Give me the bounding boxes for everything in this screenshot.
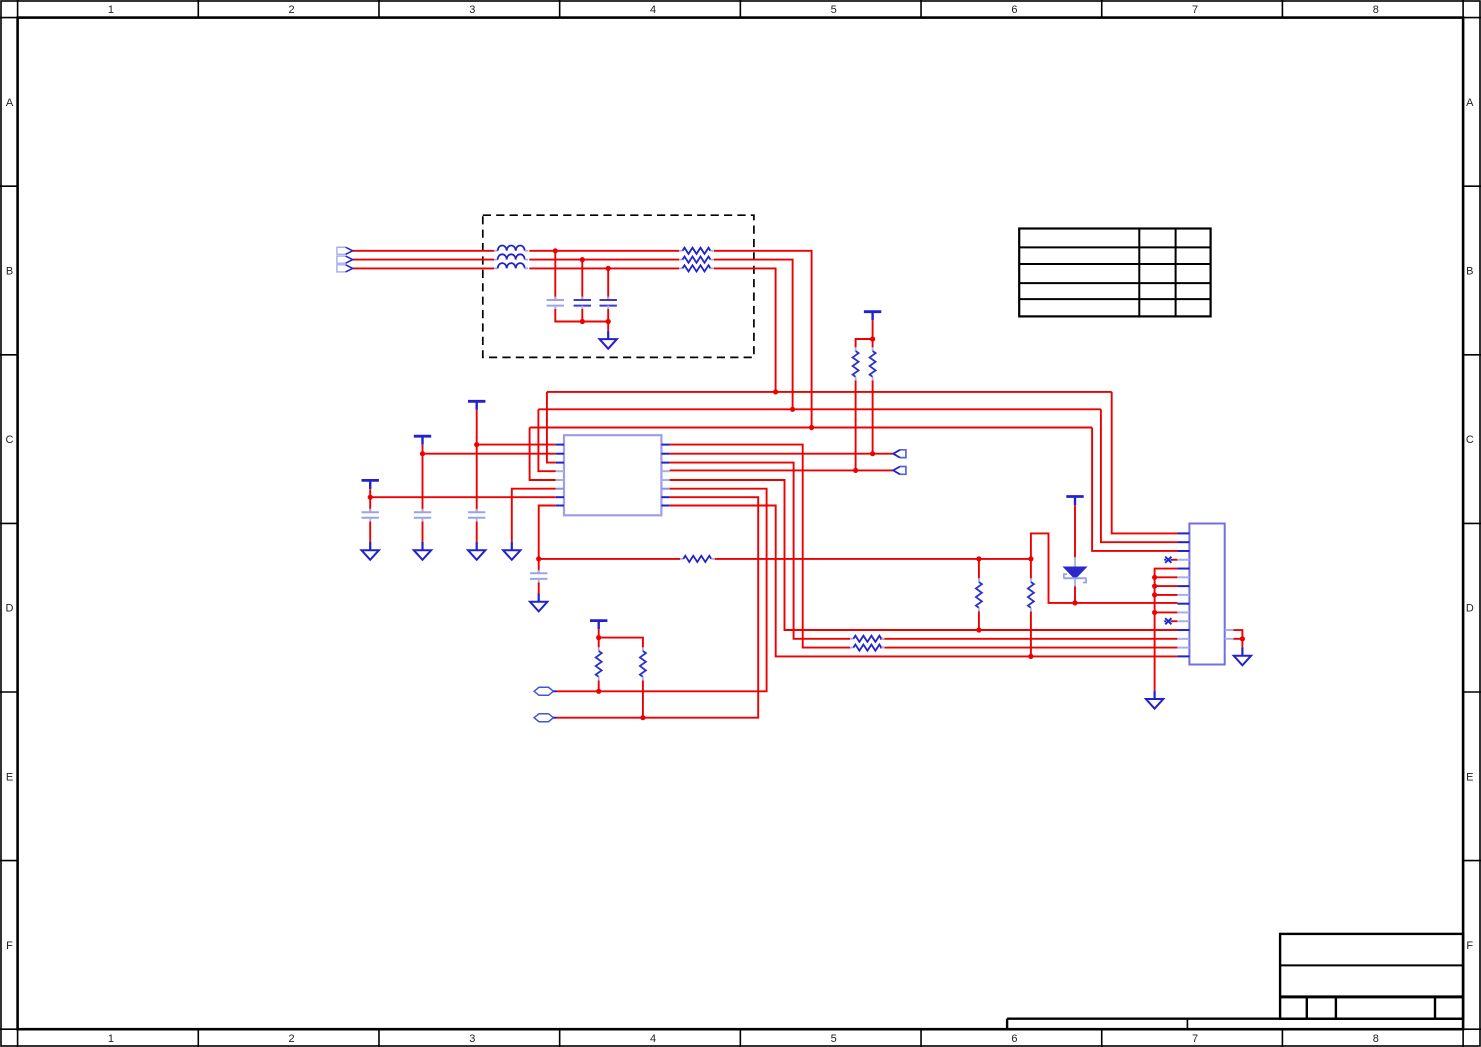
junction J10 bbox=[870, 451, 875, 456]
junction J19 bbox=[596, 635, 601, 640]
svg-text:7: 7 bbox=[1192, 4, 1198, 16]
svg-text:2: 2 bbox=[289, 1033, 295, 1045]
wire IC pin R2 to port A bbox=[670, 453, 894, 455]
VCC bar 1 bbox=[468, 401, 485, 410]
VCC bar diode bbox=[1066, 497, 1083, 506]
svg-text:7: 7 bbox=[1192, 1033, 1198, 1045]
svg-text:B: B bbox=[6, 266, 13, 278]
svg-text:4: 4 bbox=[650, 4, 656, 16]
wire IC pinR3 to connector pin13 bbox=[670, 463, 1178, 639]
output port A bbox=[893, 450, 906, 458]
wire decoupling cap grounds bbox=[370, 521, 477, 542]
column numbers top bbox=[108, 4, 1379, 16]
resistor R2 bbox=[679, 257, 714, 263]
wire line1 inductor to resistor bbox=[529, 250, 679, 252]
wire filter cap C3 branch bbox=[607, 268, 609, 300]
svg-text:C: C bbox=[6, 434, 14, 446]
wire cap C4 branch bbox=[538, 559, 540, 594]
capacitor C3 bbox=[600, 297, 617, 309]
svg-text:F: F bbox=[1466, 940, 1473, 952]
wire bus row3 bbox=[530, 427, 1093, 429]
svg-text:8: 8 bbox=[1373, 4, 1379, 16]
svg-text:A: A bbox=[6, 97, 14, 109]
column numbers bottom bbox=[108, 1033, 1379, 1045]
svg-text:E: E bbox=[1466, 771, 1473, 783]
junction J17 bbox=[1028, 556, 1033, 561]
connector J1 right pin stubs bbox=[1225, 630, 1234, 639]
wire IC pinR5 to connector pin12 bbox=[670, 480, 1178, 630]
row letters left bbox=[6, 97, 14, 952]
IC U1 bbox=[564, 435, 661, 515]
svg-text:4: 4 bbox=[650, 1033, 656, 1045]
svg-text:C: C bbox=[1466, 434, 1474, 446]
junction J13 bbox=[420, 451, 425, 456]
wire connector pin11 stub bbox=[1172, 620, 1177, 622]
resistor R7 divider bbox=[1028, 578, 1034, 611]
wire IC pinR1 to connector pin14 bbox=[670, 445, 1178, 648]
junction J4 bbox=[580, 319, 585, 324]
svg-text:2: 2 bbox=[289, 4, 295, 16]
resistor R5 pullup bbox=[853, 347, 859, 380]
junction J24 bbox=[1152, 575, 1157, 580]
input port P3 bbox=[337, 265, 353, 272]
wire bus row3 to connector pin3 bbox=[1092, 428, 1177, 551]
wire diode to pin9 line bbox=[1074, 586, 1076, 603]
junction J20 bbox=[596, 689, 601, 694]
wire VCC5 to diode bbox=[1074, 505, 1076, 559]
svg-text:E: E bbox=[6, 771, 13, 783]
dashed filter outline box bbox=[483, 215, 754, 357]
svg-text:6: 6 bbox=[1011, 1033, 1017, 1045]
no-connect pin11 bbox=[1164, 618, 1172, 624]
junction J14 bbox=[368, 495, 373, 500]
svg-text:B: B bbox=[1466, 266, 1473, 278]
svg-text:F: F bbox=[6, 940, 13, 952]
ground IC pin6 bbox=[503, 542, 520, 560]
junction J7 bbox=[790, 407, 795, 412]
capacitor C5 bbox=[362, 509, 379, 521]
revision table bbox=[1019, 229, 1210, 317]
junction J21 bbox=[640, 715, 645, 720]
resistor R3 bbox=[679, 265, 714, 271]
wire VCC6 to pullup pair bottom bbox=[599, 629, 643, 647]
inductor L3 bbox=[494, 263, 528, 268]
resistor R8 pullup bbox=[596, 647, 602, 680]
junction J11 bbox=[853, 468, 858, 473]
resistor R6 divider bbox=[976, 578, 982, 611]
wire connector ground bus bbox=[1155, 569, 1178, 691]
input port P1 bbox=[337, 247, 353, 254]
svg-text:5: 5 bbox=[831, 1033, 837, 1045]
junction J8 bbox=[809, 425, 814, 430]
junction J1 bbox=[553, 248, 558, 253]
wire net SENSE right bbox=[715, 558, 1031, 560]
resistor R1 bbox=[679, 248, 714, 254]
wire connector right pins to ground bbox=[1234, 630, 1243, 647]
wire bus row2 to IC pin4 bbox=[538, 409, 555, 471]
wire net SENSE left bbox=[539, 558, 680, 560]
svg-text:3: 3 bbox=[469, 4, 475, 16]
wire bus row1 bbox=[547, 391, 1112, 393]
ground C7 bbox=[468, 542, 485, 560]
junction J18 bbox=[1072, 600, 1077, 605]
title block lower strip bbox=[1007, 1019, 1463, 1029]
svg-text:D: D bbox=[1466, 603, 1474, 615]
wire line3 port to inductor bbox=[353, 267, 495, 269]
capacitor C6 bbox=[414, 509, 431, 521]
ground filter bbox=[600, 331, 617, 349]
wire connector pin4 stub bbox=[1172, 559, 1177, 561]
junction J16 bbox=[976, 556, 981, 561]
ground C6 bbox=[414, 542, 431, 560]
junction J15 bbox=[536, 556, 541, 561]
junction J5 bbox=[606, 319, 611, 324]
wire line2 port to inductor bbox=[353, 259, 495, 261]
wire bus row3 to IC pin5 bbox=[530, 428, 556, 481]
ground connector bus bbox=[1146, 691, 1163, 709]
wire SENSE jog to connector pin9 bbox=[1031, 533, 1178, 603]
wire line3 resistor to drop bbox=[714, 268, 776, 392]
capacitor C8 bbox=[530, 570, 547, 582]
ground connector right bbox=[1234, 647, 1251, 665]
wire line2 inductor to resistor bbox=[529, 259, 679, 261]
wire IC pin8 down bbox=[539, 506, 556, 559]
wire VCC2 to IC pin2 and cap bbox=[423, 445, 556, 512]
resistor R9 pullup bbox=[640, 647, 646, 680]
junction J2 bbox=[580, 257, 585, 262]
wire filter cap C2 branch bbox=[581, 260, 583, 300]
wire IC pinR8 to connector pin15 bbox=[670, 506, 1178, 657]
wire line3 inductor to resistor bbox=[529, 267, 679, 269]
row letters right bbox=[1466, 97, 1474, 952]
IC U1 right pin stubs bbox=[661, 445, 669, 506]
inductor L2 bbox=[494, 254, 528, 259]
wire divider R7 leads bbox=[1030, 559, 1032, 657]
junction J23 bbox=[1028, 654, 1033, 659]
wire VCC to pullup pair bbox=[856, 320, 873, 347]
svg-text:6: 6 bbox=[1011, 4, 1017, 16]
wire bus row2 bbox=[538, 408, 1101, 410]
wire pullup to line TXD bbox=[855, 380, 857, 470]
input port P2 bbox=[337, 256, 353, 263]
wire VCC1 to IC pin1 and cap bbox=[477, 410, 556, 512]
svg-text:8: 8 bbox=[1373, 1033, 1379, 1045]
capacitor C7 bbox=[468, 509, 485, 521]
resistor R11 series bbox=[850, 636, 885, 642]
svg-text:1: 1 bbox=[108, 4, 114, 16]
junction J25 bbox=[1152, 584, 1157, 589]
VCC bar bottom pullups bbox=[590, 621, 607, 630]
capacitor C1 bbox=[547, 297, 564, 309]
wire line1 port to inductor bbox=[353, 250, 495, 252]
connector J1 left pin stubs bbox=[1177, 533, 1189, 656]
wire bus row1 to IC pin3 bbox=[547, 392, 556, 463]
wire IC pin6 to ground bbox=[512, 489, 556, 542]
wire IC pin R4 to port B bbox=[670, 469, 894, 471]
junction J6 bbox=[773, 389, 778, 394]
junction J26 bbox=[1152, 592, 1157, 597]
resistor R12 series bbox=[850, 645, 885, 651]
svg-text:D: D bbox=[6, 603, 14, 615]
wire filter cap C1 branch bbox=[554, 251, 556, 300]
wire IC pinR7 to bidir port2 bbox=[557, 497, 759, 718]
junction J28 bbox=[1240, 636, 1245, 641]
no-connect pin4 bbox=[1164, 557, 1172, 563]
junction J27 bbox=[1152, 610, 1157, 615]
svg-text:3: 3 bbox=[469, 1033, 475, 1045]
inductor L1 bbox=[494, 245, 528, 250]
wire bus row2 to connector pin2 bbox=[1101, 409, 1178, 542]
ground C5 bbox=[362, 542, 379, 560]
wire filter cap common to ground bbox=[555, 309, 608, 331]
wire line2 resistor to drop bbox=[714, 260, 793, 410]
bidir port 1 bbox=[534, 687, 556, 695]
resistor R4 pullup bbox=[870, 347, 876, 380]
IC U1 left pin stubs bbox=[556, 445, 564, 506]
title block bbox=[1280, 934, 1463, 1019]
junction J3 bbox=[606, 266, 611, 271]
svg-text:A: A bbox=[1466, 97, 1474, 109]
svg-text:5: 5 bbox=[831, 4, 837, 16]
junction J9 bbox=[870, 336, 875, 341]
connector J1 bbox=[1189, 524, 1224, 665]
svg-text:1: 1 bbox=[108, 1033, 114, 1045]
wire line1 resistor to drop bbox=[714, 251, 812, 428]
bidir port 2 bbox=[534, 714, 556, 722]
wire IC pinR6 to bidir port1 bbox=[557, 489, 767, 692]
wire pullup to line RXD bbox=[872, 380, 874, 453]
wire VCC3 to IC pin7 and cap bbox=[370, 489, 556, 512]
VCC bar 3 bbox=[362, 480, 379, 489]
output port B bbox=[893, 467, 906, 475]
junction J12 bbox=[474, 442, 479, 447]
wire bottom pullup R8 to line bbox=[598, 680, 600, 691]
wire divider R6 leads bbox=[978, 559, 980, 630]
resistor R10 series bbox=[680, 556, 715, 562]
ground C8 bbox=[530, 594, 547, 612]
VCC bar top pullups bbox=[864, 312, 881, 321]
capacitor C2 bbox=[574, 297, 591, 309]
VCC bar 2 bbox=[414, 436, 431, 445]
junction J22 bbox=[976, 627, 981, 632]
wire bottom pullup R9 to line bbox=[642, 680, 644, 717]
wire bus row1 to connector pin1 bbox=[1112, 392, 1178, 534]
schottky diode D1 bbox=[1064, 557, 1087, 587]
